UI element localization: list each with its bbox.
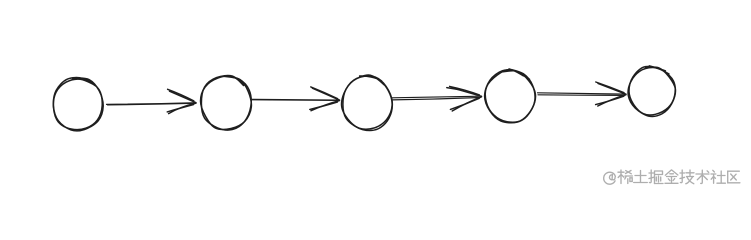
circle node 2 <box>201 76 252 130</box>
arrow 1->2 shaft <box>107 103 197 105</box>
watermark glyph qu <box>728 171 740 183</box>
watermark glyph jue <box>649 170 663 184</box>
arrow 3->4 arrowhead upper barb <box>447 86 482 96</box>
watermark glyph she <box>711 170 725 183</box>
circle node 4 <box>485 69 536 123</box>
arrow 2->3 arrowhead upper barb <box>311 87 340 100</box>
arrow 4->5 arrowhead lower barb <box>596 95 626 106</box>
watermark glyph jin <box>665 170 678 183</box>
arrow 3->4 shaft <box>392 96 482 100</box>
circle node 1 <box>53 78 103 131</box>
arrow 4->5 shaft <box>538 93 627 96</box>
watermark glyph xi <box>618 170 632 184</box>
arrow 2->3 arrowhead lower barb <box>310 101 340 111</box>
watermark glyph tu <box>634 171 648 183</box>
arrow 1->2 arrowhead lower barb <box>167 103 196 113</box>
watermark glyph ji <box>680 170 694 184</box>
arrow 2->3 shaft <box>251 99 340 100</box>
watermark glyph shu <box>696 170 709 183</box>
watermark @ Juejin community <box>604 170 740 184</box>
watermark glyph @ <box>604 172 616 184</box>
arrow 4->5 arrowhead upper barb <box>596 82 626 94</box>
arrow 1->2 arrowhead upper barb <box>168 89 196 102</box>
circle node 5 <box>628 66 675 117</box>
circle node 3 <box>342 75 393 130</box>
arrow 3->4 arrowhead lower barb <box>450 97 481 111</box>
